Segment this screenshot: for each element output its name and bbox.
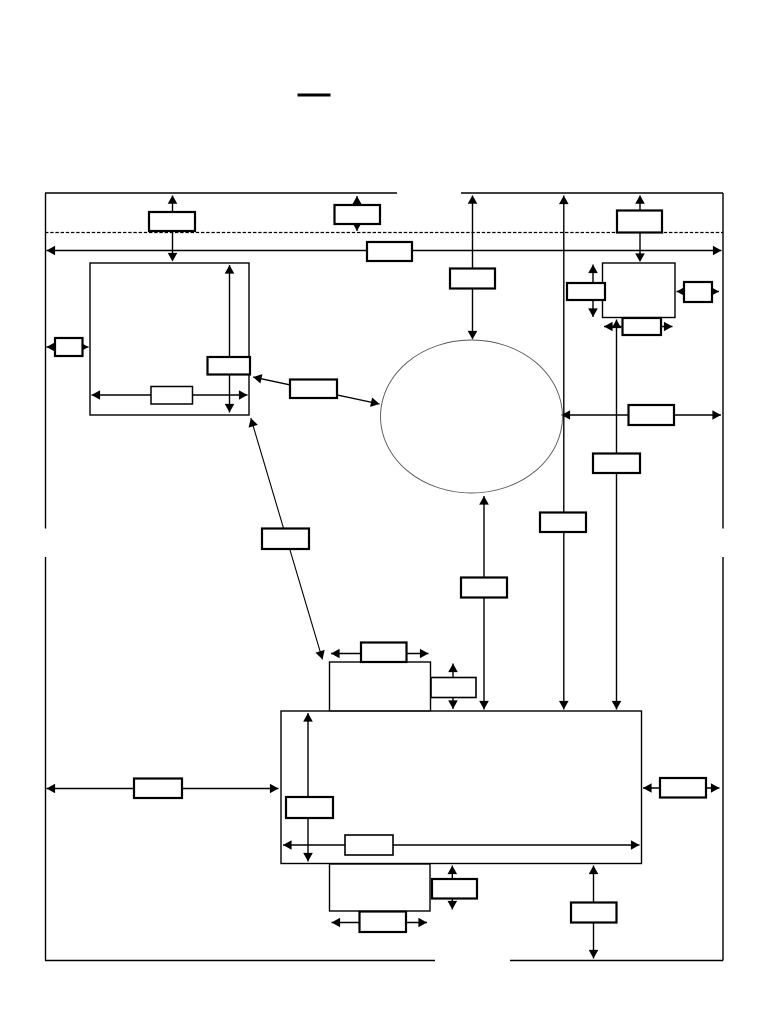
label box on bottom vertical arrow [571,903,617,923]
vertical double arrow right of box M1 [448,664,458,710]
frame top border left segment [45,192,397,194]
label box left of square S1 [55,338,83,356]
label box right of box M1 [431,678,476,698]
label box on right arrow from big box [660,778,706,798]
horizontal double arrow right of box TR [677,287,720,297]
frame left border upper segment [45,193,47,529]
label box L1 [149,212,195,231]
label box L3 on bus [367,242,412,261]
label box on big box inner horizontal arrow [345,835,393,855]
box M1 container [330,662,431,711]
ellipse process bubble [381,340,563,493]
left horizontal double arrow to big box B1 [47,784,279,794]
label box on long diagonal [262,529,309,550]
vertical double arrow for box L2 [352,196,362,231]
dashed boundary line [45,232,723,234]
vertical double arrow left of box TR [588,265,598,318]
diagonal double arrow square to ellipse [253,374,380,407]
inner horizontal double arrow of square S1 [92,390,248,400]
label box at square S1 right edge [208,357,251,375]
label box on box M1 [361,643,407,663]
vertical arrow through box L3 to ellipse top [468,195,478,339]
vertical arrow through box L1 from top border to square [168,195,178,261]
horizontal double arrow below box TR [604,322,673,332]
label box on x=616 arrow [593,454,640,474]
vertical arrow through box L4 to top-right box [635,195,645,262]
label box on big box inner vertical arrow [286,797,333,818]
horizontal double arrow ellipse to right border [562,410,722,420]
frame top border right segment [461,192,723,194]
frame right border lower segment [722,557,724,961]
left short double arrow into square S1 [47,342,89,352]
label box on diagonal to ellipse [290,380,337,399]
label box right of box TR [684,282,712,302]
frame right border upper segment [722,193,724,529]
label box below box TR [623,318,662,335]
horizontal bus double arrow [47,246,722,256]
vertical double arrow ellipse-bottom to big box [479,496,489,710]
label box L2 [335,205,381,224]
label box on x=564 arrow [540,513,586,533]
inner horizontal double arrow of big box B1 [283,840,640,850]
label box on square S1 inner horizontal arrow [151,387,193,405]
inner vertical double arrow of square S1 [225,265,235,413]
vertical double arrow right of box M2 [448,866,458,910]
label box right of box M2 [432,879,477,899]
title underline mark [298,94,331,97]
box TR container [603,263,676,318]
frame bottom border left segment [45,960,435,962]
label box L4 [617,211,662,233]
bottom vertical double arrow to bottom border [589,866,599,959]
horizontal double arrow on box M1 [331,649,429,659]
frame left border lower segment [45,557,47,961]
label box left of box TR [567,283,605,300]
label box below box M2 [360,912,407,933]
frame bottom border right segment [510,960,723,962]
label box on y=415 arrow [629,405,675,425]
label box on x=484 arrow [461,578,507,598]
long vertical double arrow at x=564 [559,196,569,710]
label box on left arrow to big box [134,779,182,799]
horizontal double arrow below box M2 [332,918,428,928]
big box B1 [281,711,642,864]
box M2 container [330,864,431,911]
long vertical double arrow at x=616 [612,320,622,710]
label box on x=472 arrow [450,269,495,289]
square S1 [90,263,249,415]
inner vertical double arrow of big box B1 [303,713,313,862]
long diagonal double arrow square corner to mid box [249,418,325,660]
right horizontal double arrow from big box B1 [643,783,720,793]
